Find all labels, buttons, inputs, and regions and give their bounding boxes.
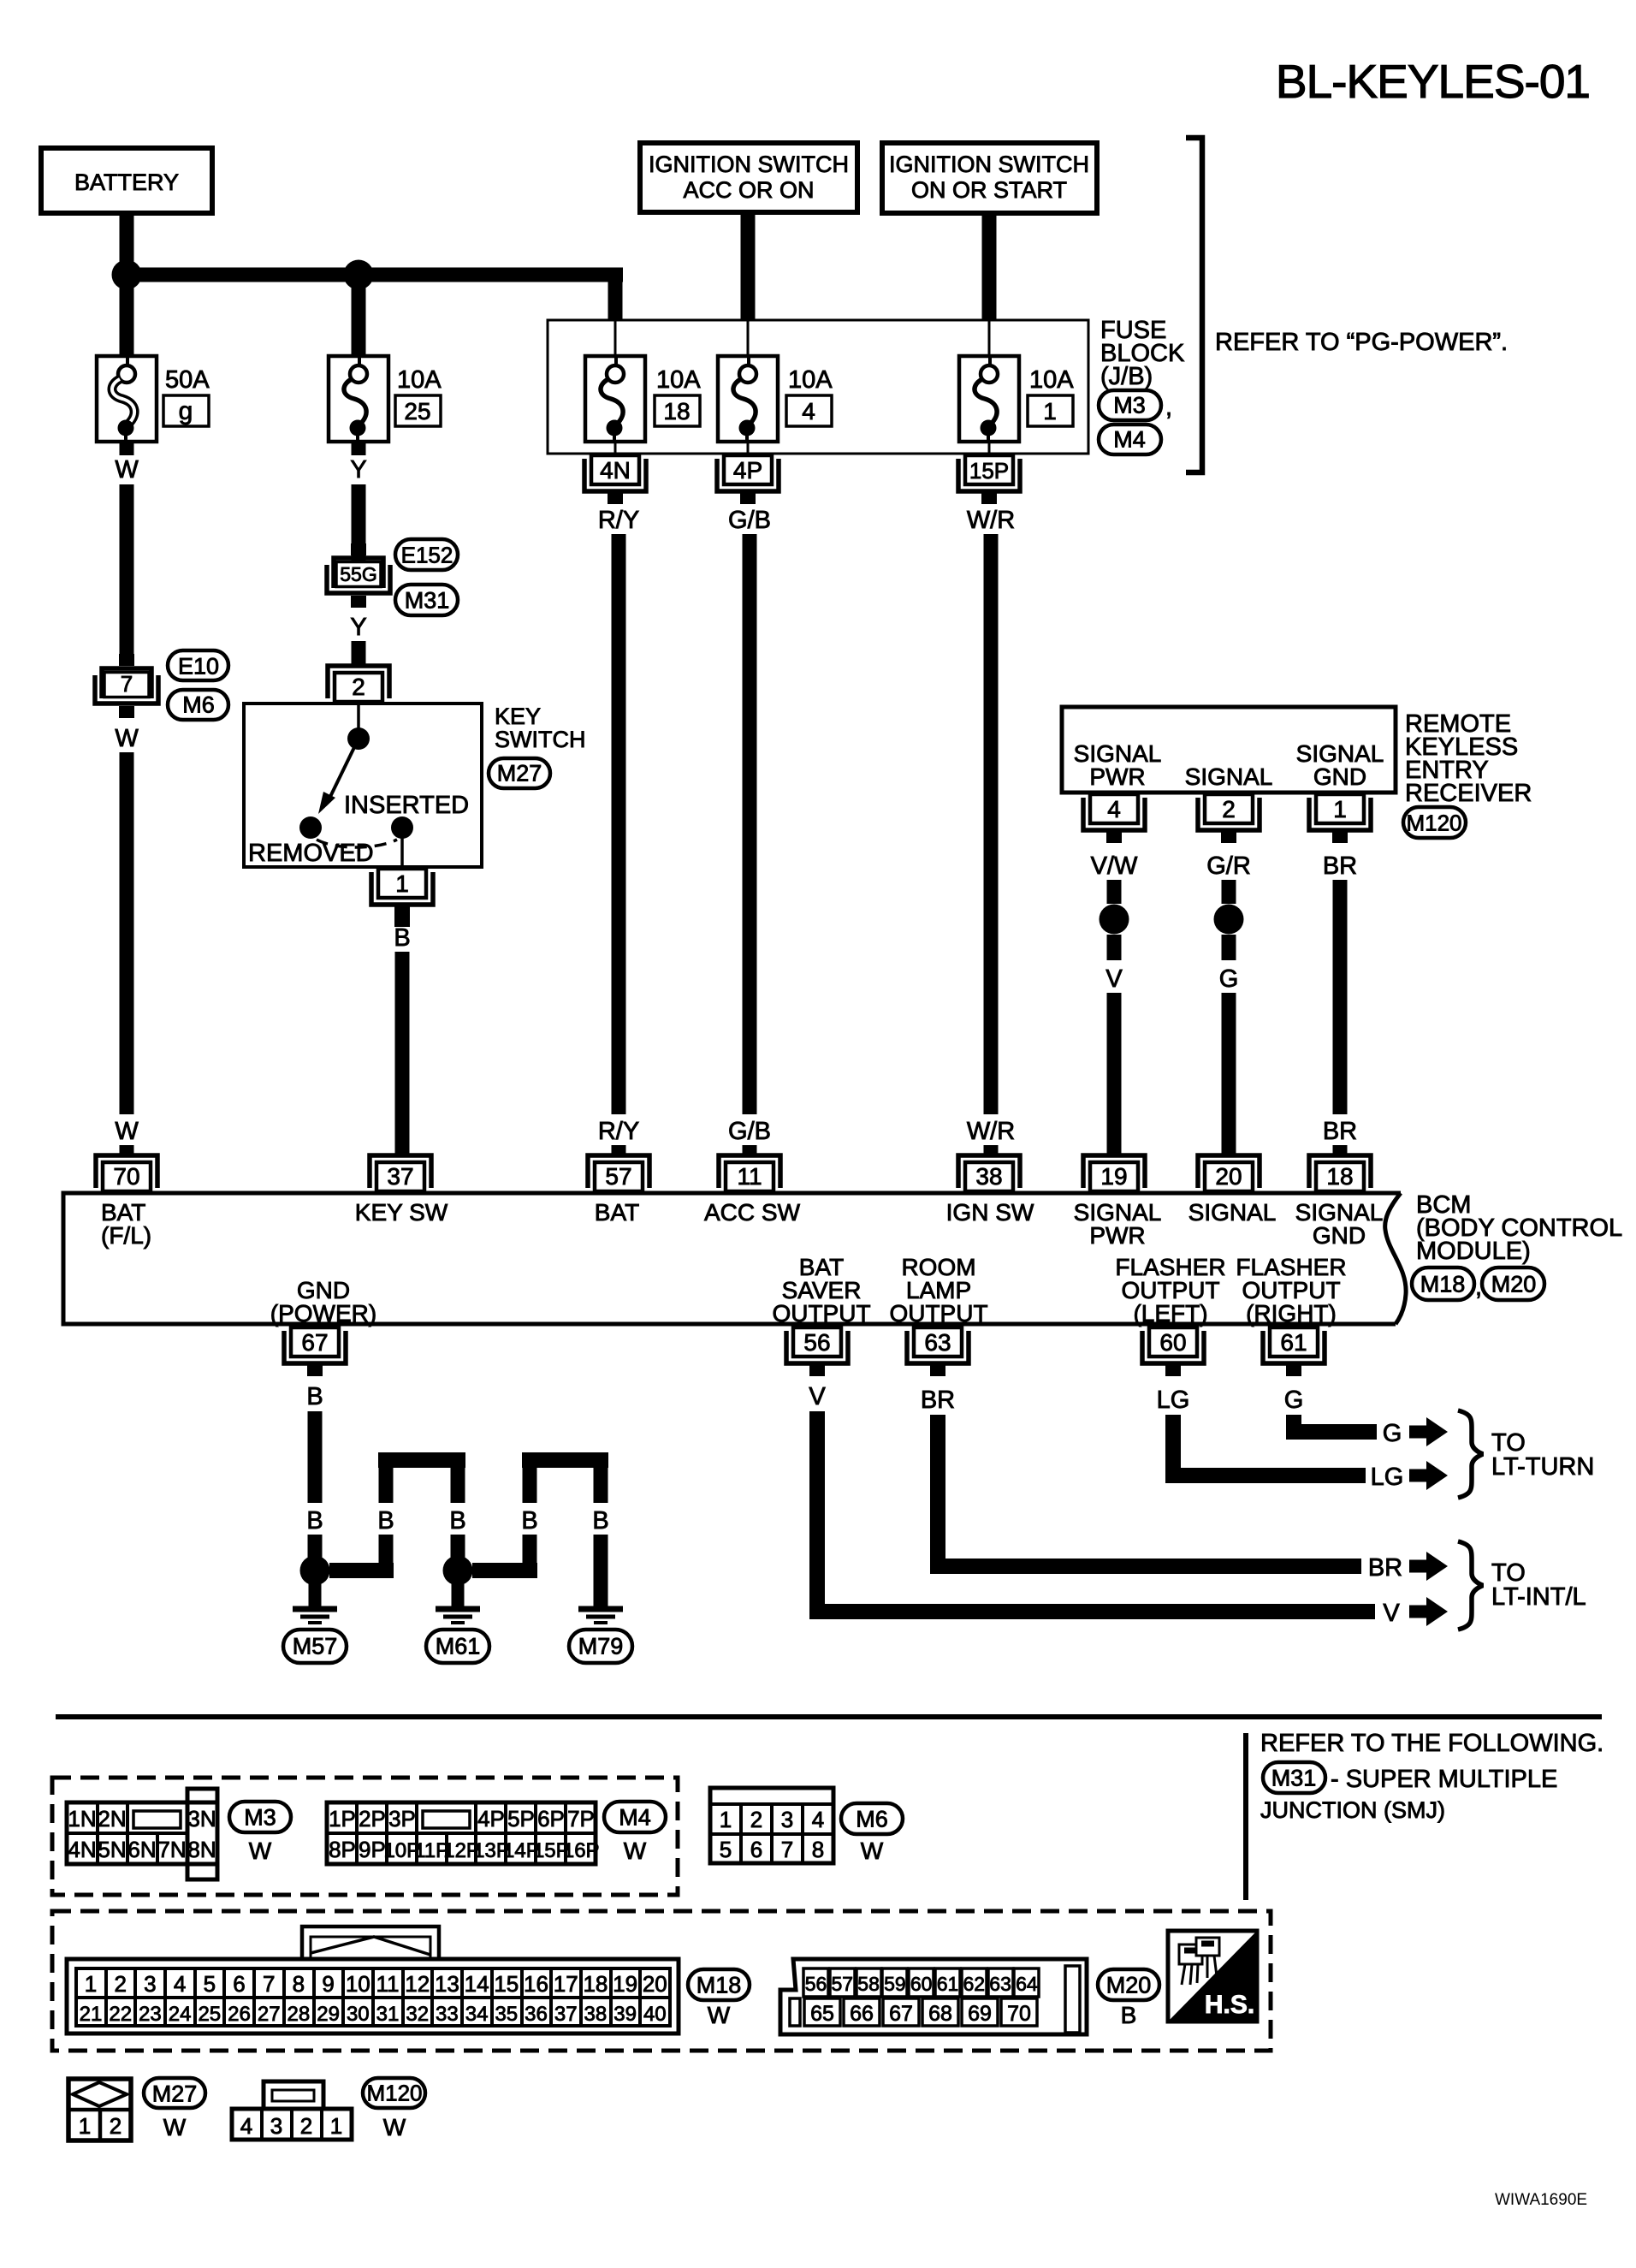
wire V BCM 56 to LT-INT/L (809, 1383, 1448, 1627)
BCM pin 63 (907, 1327, 969, 1376)
svg-text:2: 2 (300, 2113, 312, 2139)
svg-text:M120: M120 (1406, 810, 1461, 835)
dashed group box M18 M20 (52, 1911, 1271, 2051)
svg-text:G: G (1284, 1386, 1304, 1414)
svg-text:ON OR START: ON OR START (911, 177, 1067, 203)
wire Y below fuse F2 (350, 442, 366, 567)
svg-text:B: B (1121, 2002, 1137, 2028)
doc number WIWA1690E (1495, 2191, 1587, 2209)
BCM body control module box (63, 1193, 1406, 1324)
brace TO LT-INT/L (1458, 1541, 1586, 1630)
svg-text:7P: 7P (567, 1806, 595, 1832)
svg-text:W: W (115, 1118, 139, 1145)
svg-text:V: V (1383, 1600, 1400, 1627)
svg-text:4P: 4P (477, 1806, 505, 1832)
svg-text:37: 37 (554, 2003, 578, 2026)
wire BR receiver pin1 to BCM pin 18 (1323, 852, 1357, 1155)
connector M18 grid (67, 1927, 679, 2033)
svg-text:BR: BR (1323, 852, 1357, 880)
svg-text:Y: Y (350, 614, 366, 641)
svg-text:B: B (521, 1507, 537, 1535)
ground symbol M57 (283, 1609, 347, 1663)
wire junction B to fuse 10A-25 (352, 275, 366, 356)
svg-text:B: B (306, 1507, 323, 1535)
fuse F1 50A (97, 356, 210, 442)
wire ACC switch to fuse block (741, 212, 756, 320)
svg-text:62: 62 (963, 1973, 986, 1995)
svg-text:4: 4 (802, 398, 815, 425)
fuse F5 10A 1 (959, 356, 1074, 442)
svg-text:14: 14 (465, 1971, 489, 1997)
svg-text:BAT: BAT (595, 1199, 639, 1226)
svg-text:G/R: G/R (1206, 852, 1251, 880)
svg-text:5N: 5N (98, 1837, 126, 1862)
wire LG BCM 60 to LT-TURN (1157, 1386, 1448, 1491)
svg-text:10A: 10A (656, 366, 701, 394)
svg-text:BL-KEYLES-01: BL-KEYLES-01 (1276, 55, 1590, 108)
svg-text:4: 4 (240, 2113, 252, 2139)
svg-text:16P: 16P (563, 1839, 600, 1862)
svg-text:3: 3 (781, 1807, 793, 1832)
connector M6 label (841, 1803, 903, 1864)
svg-text:M27: M27 (152, 2081, 198, 2107)
svg-text:2: 2 (114, 1971, 126, 1997)
svg-text:3: 3 (270, 2113, 282, 2139)
svg-text:59: 59 (884, 1973, 906, 1995)
BCM name labels (1412, 1191, 1622, 1301)
connector M6 grid (710, 1788, 833, 1863)
svg-text:E10: E10 (178, 654, 219, 680)
svg-text:17: 17 (554, 1971, 578, 1997)
svg-text:19: 19 (1100, 1163, 1127, 1190)
svg-text:- SUPER MULTIPLE: - SUPER MULTIPLE (1331, 1766, 1557, 1793)
svg-text:R/Y: R/Y (598, 507, 639, 534)
svg-text:1: 1 (720, 1807, 732, 1832)
svg-text:SWITCH: SWITCH (495, 727, 585, 752)
svg-text:25: 25 (404, 398, 430, 425)
svg-text:61: 61 (1280, 1329, 1307, 1356)
wire V splice to BCM pin 19 (1105, 935, 1123, 1155)
H.S. hand symbol icon (1168, 1931, 1257, 2022)
connector M4 label (604, 1802, 666, 1864)
battery B1 (41, 148, 212, 213)
BCM pin 56 (786, 1327, 848, 1376)
svg-text:56: 56 (805, 1973, 827, 1995)
BCM pin labels row1 (101, 1199, 1383, 1249)
svg-text:LG: LG (1157, 1386, 1190, 1414)
wire BR BCM 63 to LT-INT/L (921, 1386, 1448, 1582)
svg-text:1N: 1N (68, 1806, 96, 1832)
svg-text:4: 4 (174, 1971, 186, 1997)
svg-text:5P: 5P (507, 1806, 535, 1832)
svg-text:15P: 15P (969, 458, 1009, 484)
svg-text:(J/B): (J/B) (1100, 363, 1153, 390)
title BL-KEYLES-01 (1276, 55, 1590, 108)
svg-text:g: g (179, 397, 193, 425)
svg-text:7: 7 (781, 1837, 793, 1862)
svg-text:GND: GND (1313, 1222, 1366, 1249)
note refer to the following (1246, 1730, 1603, 1900)
svg-text:M18: M18 (696, 1973, 742, 1998)
svg-text:10A: 10A (788, 366, 833, 394)
svg-text:M79: M79 (578, 1634, 624, 1659)
svg-text:RECEIVER: RECEIVER (1405, 780, 1532, 807)
svg-text:2P: 2P (359, 1806, 386, 1832)
svg-text:INSERTED: INSERTED (344, 792, 469, 819)
svg-text:3N: 3N (187, 1806, 216, 1832)
svg-text:W/R: W/R (967, 507, 1015, 534)
connector 4N (584, 455, 646, 504)
ground symbol M79 (569, 1609, 632, 1663)
svg-text:M4: M4 (1113, 427, 1146, 453)
fuse block (J/B) box (548, 320, 1088, 454)
svg-text:(POWER): (POWER) (270, 1300, 376, 1327)
svg-text:M3: M3 (244, 1805, 276, 1831)
svg-text:W: W (383, 2114, 406, 2140)
svg-text:63: 63 (989, 1973, 1011, 1995)
receiver pin 2 (1198, 794, 1260, 843)
svg-text:18: 18 (663, 398, 690, 425)
svg-text:M27: M27 (497, 761, 542, 787)
svg-text:8: 8 (812, 1837, 824, 1862)
wire B U1 right leg down (451, 1535, 465, 1558)
connector M20 grid (780, 1959, 1087, 2034)
svg-text:SIGNAL: SIGNAL (1188, 1199, 1277, 1226)
wire G/R receiver pin2 to splice (1206, 852, 1251, 904)
wire B U2 right leg to ground (594, 1535, 608, 1606)
BCM pin 70 (96, 1155, 157, 1191)
svg-text:G: G (1219, 965, 1239, 993)
svg-text:LG: LG (1371, 1464, 1404, 1491)
svg-text:OUTPUT: OUTPUT (772, 1300, 870, 1327)
svg-text:(LEFT): (LEFT) (1133, 1300, 1207, 1327)
svg-text:7: 7 (263, 1971, 275, 1997)
ignition switch ON OR START box (882, 143, 1097, 213)
svg-text:ACC OR ON: ACC OR ON (683, 177, 814, 203)
svg-text:21: 21 (80, 2003, 103, 2026)
svg-text:61: 61 (937, 1973, 959, 1995)
connector M27 grid (68, 2079, 131, 2140)
svg-text:15: 15 (494, 1971, 519, 1997)
svg-text:B: B (449, 1507, 465, 1535)
svg-text:M31: M31 (405, 588, 450, 614)
svg-text:34: 34 (465, 2003, 489, 2026)
svg-text:BATTERY: BATTERY (74, 169, 179, 195)
svg-text:39: 39 (613, 2003, 637, 2026)
wire G BCM 61 to LT-TURN (1284, 1386, 1448, 1447)
svg-text:SIGNAL: SIGNAL (1185, 763, 1273, 790)
svg-text:PWR: PWR (1089, 763, 1145, 790)
svg-text:66: 66 (850, 2002, 874, 2026)
svg-text:E152: E152 (401, 542, 453, 567)
splice node V (1100, 905, 1129, 935)
svg-text:35: 35 (495, 2003, 518, 2026)
connector pin 2 key switch (328, 666, 389, 702)
svg-text:7N: 7N (157, 1837, 186, 1862)
svg-text:6: 6 (233, 1971, 245, 1997)
BCM pin 57 (588, 1155, 649, 1191)
svg-text:OUTPUT: OUTPUT (889, 1300, 987, 1327)
svg-text:9P: 9P (359, 1837, 386, 1862)
svg-text:W: W (115, 456, 139, 484)
key switch contacts (299, 727, 413, 867)
BCM pin 37 (370, 1155, 431, 1191)
svg-text:60: 60 (910, 1973, 933, 1995)
wire bus corner into fuse block (608, 268, 623, 320)
BCM pin 18 (1309, 1155, 1371, 1191)
svg-text:G/B: G/B (728, 1118, 771, 1145)
svg-text:18: 18 (583, 1971, 608, 1997)
svg-text:REFER TO “PG-POWER”.: REFER TO “PG-POWER”. (1215, 329, 1508, 356)
svg-text:33: 33 (436, 2003, 459, 2026)
wire B key switch to BCM pin 37 (394, 924, 410, 1155)
fuse F3 10A 18 (585, 356, 701, 442)
svg-text:10: 10 (346, 1971, 370, 1997)
svg-text:KEY SW: KEY SW (355, 1199, 448, 1226)
ground splice M61 (443, 1556, 473, 1607)
key switch labels (248, 704, 585, 867)
svg-text:LT-INT/L: LT-INT/L (1491, 1583, 1586, 1611)
svg-text:19: 19 (613, 1971, 637, 1997)
ground splice M57 (300, 1556, 330, 1607)
svg-text:W: W (861, 1838, 884, 1864)
fuse F4 10A 4 (718, 356, 833, 442)
svg-text:4P: 4P (733, 457, 762, 484)
svg-text:Y: Y (350, 456, 366, 484)
svg-text:5: 5 (720, 1837, 732, 1862)
svg-text:8: 8 (293, 1971, 305, 1997)
svg-text:58: 58 (857, 1973, 880, 1995)
svg-text:2: 2 (352, 674, 365, 700)
svg-text:3: 3 (144, 1971, 156, 1997)
svg-text:11: 11 (376, 1971, 400, 1997)
svg-text:38: 38 (975, 1163, 1002, 1190)
svg-text:6P: 6P (537, 1806, 565, 1832)
svg-text:6N: 6N (127, 1837, 156, 1862)
junction node A (112, 260, 142, 290)
svg-text:57: 57 (832, 1973, 854, 1995)
svg-text:LT-TURN: LT-TURN (1491, 1453, 1594, 1481)
dashed group box M3 M4 (52, 1778, 678, 1895)
bracket refer to PG-POWER (1186, 138, 1508, 472)
junction node B (344, 260, 374, 290)
wire B loop U2 (472, 1452, 609, 1578)
svg-text:38: 38 (584, 2003, 608, 2026)
connector M3 label (229, 1802, 291, 1864)
connector M27 label (144, 2078, 205, 2140)
svg-text:24: 24 (169, 2003, 192, 2026)
svg-text:28: 28 (287, 2003, 311, 2026)
BCM pin labels row2 (270, 1254, 1347, 1327)
svg-text:W: W (708, 2002, 731, 2028)
svg-text:W: W (163, 2114, 187, 2140)
svg-text:1: 1 (395, 870, 409, 897)
svg-text:63: 63 (924, 1329, 951, 1356)
splice node G (1214, 905, 1244, 935)
wire W/R 15P to BCM pin 38 (967, 507, 1015, 1155)
svg-text:1: 1 (1043, 398, 1057, 425)
wire battery to junction (120, 213, 134, 275)
svg-text:IGNITION SWITCH: IGNITION SWITCH (889, 151, 1089, 177)
BCM pin 11 (719, 1155, 780, 1191)
wire B U1 left leg to splice (329, 1507, 466, 1578)
receiver pin 4 (1083, 794, 1145, 843)
wire ON switch to fuse block (982, 213, 997, 320)
svg-text:37: 37 (387, 1163, 413, 1190)
svg-text:20: 20 (643, 1971, 667, 1997)
svg-text:V: V (809, 1383, 826, 1410)
svg-text:REFER TO THE FOLLOWING.: REFER TO THE FOLLOWING. (1260, 1730, 1603, 1757)
receiver pin 1 (1309, 794, 1371, 843)
svg-text:29: 29 (317, 2003, 340, 2026)
svg-text:V/W: V/W (1091, 852, 1138, 880)
connector pin 1 key switch (371, 869, 433, 927)
svg-text:70: 70 (113, 1163, 139, 1190)
connector M120 grid (232, 2081, 352, 2140)
svg-text:G/B: G/B (728, 507, 771, 534)
svg-text:23: 23 (139, 2003, 162, 2026)
wire V/W receiver pin4 to splice (1091, 852, 1138, 904)
BCM pin 60 (1142, 1327, 1204, 1376)
svg-text:BR: BR (1368, 1554, 1402, 1582)
svg-text:69: 69 (968, 2002, 992, 2026)
svg-text:B: B (377, 1507, 394, 1535)
wire junction A to fuse 50A (120, 275, 134, 356)
svg-text:(F/L): (F/L) (101, 1222, 151, 1249)
wire R/Y 4N to BCM pin 57 (598, 507, 639, 1155)
svg-text:G: G (1383, 1420, 1402, 1447)
svg-text:10A: 10A (1029, 366, 1074, 394)
svg-text:22: 22 (109, 2003, 132, 2026)
svg-text:R/Y: R/Y (598, 1118, 639, 1145)
svg-text:BR: BR (1323, 1118, 1357, 1145)
brace TO LT-TURN (1458, 1410, 1594, 1498)
svg-text:KEY: KEY (495, 704, 541, 729)
svg-text:M61: M61 (436, 1634, 481, 1659)
wire W below fuse F1 (115, 442, 139, 654)
svg-text:10A: 10A (397, 366, 442, 394)
svg-text:IGN SW: IGN SW (946, 1199, 1034, 1226)
svg-text:JUNCTION (SMJ): JUNCTION (SMJ) (1260, 1797, 1445, 1823)
svg-text:4N: 4N (68, 1837, 96, 1862)
svg-text:7: 7 (121, 671, 133, 697)
svg-text:B: B (306, 1383, 323, 1410)
svg-text:4: 4 (1107, 796, 1121, 822)
ignition switch ACC OR ON box (640, 143, 857, 212)
wire B BCM 67 down (306, 1383, 323, 1558)
svg-text:PWR: PWR (1089, 1222, 1145, 1249)
svg-text:6: 6 (750, 1837, 762, 1862)
svg-text:27: 27 (258, 2003, 281, 2026)
fuse F2 10A 25 (329, 356, 442, 442)
remote keyless entry receiver box M120 (1062, 707, 1532, 838)
svg-text:65: 65 (810, 2002, 834, 2026)
svg-text:W/R: W/R (967, 1118, 1015, 1145)
svg-text:64: 64 (1016, 1973, 1038, 1995)
svg-text:20: 20 (1215, 1163, 1242, 1190)
BCM pin 20 (1198, 1155, 1260, 1191)
svg-text:68: 68 (928, 2002, 952, 2026)
svg-text:M120: M120 (366, 2080, 422, 2105)
svg-text:1: 1 (85, 1971, 97, 1997)
svg-text:56: 56 (803, 1329, 830, 1356)
wire Y 55G to key switch pin 2 (350, 614, 366, 667)
BCM pin 19 (1083, 1155, 1145, 1191)
svg-text:4: 4 (812, 1807, 824, 1832)
svg-text:MODULE): MODULE) (1416, 1238, 1531, 1265)
connector M18 label (688, 1969, 750, 2028)
svg-text:50A: 50A (165, 366, 210, 394)
svg-text:,: , (1165, 394, 1172, 421)
svg-text:M57: M57 (293, 1634, 338, 1659)
svg-text:8P: 8P (329, 1837, 356, 1862)
svg-text:13: 13 (435, 1971, 459, 1997)
svg-text:H.S.: H.S. (1205, 1991, 1254, 2019)
svg-text:16: 16 (524, 1971, 548, 1997)
svg-text:B: B (592, 1507, 608, 1535)
svg-text:W: W (624, 1838, 647, 1864)
wire W connector7 to BCM pin 70 (115, 725, 139, 1155)
svg-text:31: 31 (376, 2003, 400, 2026)
svg-text:M20: M20 (1106, 1973, 1152, 1998)
connector 4P (717, 455, 779, 504)
BCM pin 67 (284, 1327, 346, 1376)
svg-text:W: W (115, 725, 139, 752)
wire G splice to BCM pin 20 (1219, 935, 1239, 1155)
connector M20 label (1098, 1969, 1159, 2028)
svg-text:M20: M20 (1491, 1272, 1537, 1297)
svg-text:26: 26 (228, 2003, 251, 2026)
svg-text:M4: M4 (619, 1805, 651, 1831)
svg-text:M3: M3 (1113, 393, 1146, 419)
svg-text:REMOVED: REMOVED (248, 840, 374, 867)
svg-text:WIWA1690E: WIWA1690E (1495, 2191, 1587, 2209)
connector 55G E152/M31 (327, 539, 458, 615)
svg-text:GND: GND (1313, 763, 1366, 790)
svg-text:4N: 4N (600, 457, 631, 484)
svg-text:2N: 2N (98, 1806, 126, 1832)
svg-text:57: 57 (605, 1163, 631, 1190)
svg-text:2: 2 (750, 1807, 762, 1832)
svg-text:67: 67 (301, 1329, 328, 1356)
connector M4 grid (327, 1802, 600, 1864)
svg-text:B: B (394, 924, 410, 952)
wire B loop U1 (378, 1452, 465, 1503)
svg-text:V: V (1105, 965, 1123, 993)
svg-text:8N: 8N (187, 1837, 216, 1862)
svg-text:36: 36 (525, 2003, 548, 2026)
svg-text:67: 67 (889, 2002, 913, 2026)
svg-text:32: 32 (406, 2003, 429, 2026)
svg-text:M31: M31 (1271, 1766, 1317, 1791)
svg-text:W: W (249, 1838, 272, 1864)
svg-text:1: 1 (79, 2113, 91, 2139)
svg-text:2: 2 (1222, 796, 1236, 822)
svg-text:1: 1 (1333, 796, 1347, 822)
connector 15P (958, 455, 1020, 504)
svg-text:3P: 3P (388, 1806, 416, 1832)
fuse block label and connectors M3 M4 (1099, 317, 1185, 454)
svg-text:5: 5 (204, 1971, 216, 1997)
svg-text:(RIGHT): (RIGHT) (1246, 1300, 1337, 1327)
svg-text:40: 40 (643, 2003, 667, 2026)
wire G/B 4P to BCM pin 11 (728, 507, 771, 1155)
svg-text:ACC SW: ACC SW (704, 1199, 801, 1226)
svg-text:M6: M6 (856, 1807, 888, 1832)
svg-text:IGNITION SWITCH: IGNITION SWITCH (649, 151, 849, 177)
svg-text:18: 18 (1326, 1163, 1353, 1190)
svg-text:BR: BR (921, 1386, 955, 1414)
